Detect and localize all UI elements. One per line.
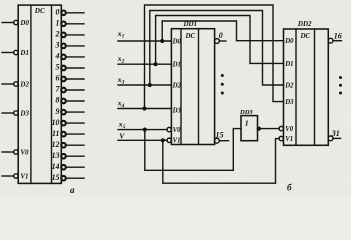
svg-text:D3: D3 [284, 99, 294, 106]
svg-text:0: 0 [56, 8, 60, 17]
DD1 pin V1 bubble [167, 138, 171, 142]
svg-text:V1: V1 [20, 173, 28, 181]
svg-text:D0: D0 [19, 19, 29, 27]
junction on V [161, 138, 165, 142]
svg-text:9: 9 [56, 107, 60, 116]
output 14 of DC (fig.a) [52, 162, 85, 171]
wire input x4 [118, 108, 171, 110]
output 13 of DC (fig.a) [52, 151, 85, 160]
svg-text:DC: DC [185, 32, 196, 40]
svg-text:V0: V0 [173, 127, 182, 134]
decoder DD2 body [284, 29, 329, 145]
ellipsis dots DD2 outputs [339, 76, 342, 95]
wire input x5 [118, 129, 167, 131]
svg-text:12: 12 [52, 140, 60, 149]
junction at DD3 output [257, 127, 261, 131]
svg-text:б: б [287, 183, 292, 193]
output 10 of DC (fig.a) [52, 118, 85, 127]
input D1 (fig.a) [2, 50, 18, 54]
DD2 pin V1 bubble [279, 136, 283, 140]
output 5 of DC (fig.a) [56, 63, 85, 72]
DD1 output 15 [215, 138, 229, 143]
DD2 pin V0 bubble [279, 126, 283, 130]
svg-text:D1: D1 [19, 49, 29, 57]
svg-text:D2: D2 [284, 82, 294, 89]
wire input x2 [118, 63, 171, 65]
DC left field divider [30, 5, 32, 183]
svg-text:10: 10 [52, 118, 60, 127]
svg-text:D1: D1 [172, 62, 181, 69]
output 1 of DC (fig.a) [56, 19, 85, 28]
svg-text:0: 0 [219, 31, 223, 40]
decoder DC body (fig.a) [18, 5, 61, 183]
DC right field divider [51, 5, 53, 183]
svg-text:a: a [70, 185, 75, 195]
svg-text:8: 8 [56, 96, 60, 105]
svg-text:V0: V0 [285, 126, 294, 133]
svg-text:15: 15 [216, 130, 224, 139]
DD1 output 0 [215, 39, 226, 44]
input D3 (fig.a) [2, 111, 18, 115]
output 2 of DC (fig.a) [55, 30, 85, 39]
svg-text:DC: DC [34, 7, 45, 15]
svg-text:D3: D3 [19, 110, 29, 118]
DD2 left field divider [295, 29, 297, 145]
wire input x3 [118, 84, 171, 86]
svg-text:31: 31 [331, 129, 340, 138]
svg-text:D3: D3 [172, 107, 182, 114]
svg-text:D2: D2 [19, 81, 29, 89]
DD2 output 16 [328, 38, 341, 43]
output 15 of DC (fig.a) [52, 173, 85, 182]
wire x3 to DD2.D2 [150, 11, 284, 86]
output 8 of DC (fig.a) [56, 96, 85, 105]
wire V to DD2.V1 [163, 139, 279, 184]
wire x1 to DD2.D0 [162, 21, 283, 41]
DD1 pin V0 bubble [167, 127, 171, 131]
input D0 (fig.a) [2, 20, 18, 24]
svg-text:16: 16 [334, 31, 342, 40]
wire x5 to DD3 input [145, 129, 241, 171]
wire x4 to DD2.D3 [145, 5, 284, 109]
wire x2 to DD2.D1 [156, 16, 284, 65]
svg-text:D0: D0 [284, 38, 294, 45]
inverter DD3 body [241, 116, 258, 141]
output 6 of DC (fig.a) [56, 74, 85, 83]
input V1 (fig.a) [2, 174, 18, 178]
svg-text:11: 11 [52, 129, 60, 138]
junction on x3 [148, 83, 152, 87]
svg-text:V0: V0 [20, 149, 29, 157]
wire input V [118, 139, 167, 141]
junction on x4 [142, 106, 146, 110]
output 7 of DC (fig.a) [56, 85, 85, 94]
junction on x2 [154, 62, 158, 66]
svg-text:5: 5 [56, 63, 60, 72]
svg-text:3: 3 [55, 41, 60, 50]
svg-text:DD3: DD3 [239, 109, 253, 116]
junction on x5 [143, 128, 147, 132]
output 3 of DC (fig.a) [55, 41, 85, 50]
svg-text:V1: V1 [285, 136, 293, 143]
svg-text:DC: DC [300, 32, 311, 40]
svg-text:D2: D2 [172, 82, 182, 89]
output 11 of DC (fig.a) [52, 129, 85, 138]
wire input x1 [118, 40, 171, 42]
input D2 (fig.a) [2, 82, 18, 86]
junction on x1 [160, 39, 164, 43]
DD2 right field divider [314, 29, 316, 145]
svg-text:2: 2 [55, 30, 60, 39]
output 4 of DC (fig.a) [55, 52, 85, 61]
svg-text:D0: D0 [172, 38, 182, 45]
svg-text:DD2: DD2 [297, 20, 312, 28]
output 0 of DC (fig.a) [56, 8, 85, 17]
decoder DD1 body [171, 29, 214, 145]
wire DD3 output to DD2.V0 [258, 128, 280, 130]
svg-text:1: 1 [56, 19, 60, 28]
DD1 right field divider [198, 29, 200, 145]
output 12 of DC (fig.a) [52, 140, 85, 149]
svg-text:DD1: DD1 [183, 20, 198, 28]
DD1 left field divider [180, 29, 182, 145]
svg-text:4: 4 [55, 52, 60, 61]
svg-text:D1: D1 [284, 61, 293, 68]
svg-text:13: 13 [52, 151, 60, 160]
DD2 output 31 [328, 136, 340, 141]
output 9 of DC (fig.a) [56, 107, 85, 116]
input V0 (fig.a) [2, 150, 18, 154]
ellipsis dots DD1 outputs [221, 74, 224, 95]
svg-text:V1: V1 [173, 138, 181, 145]
svg-text:6: 6 [56, 74, 60, 83]
svg-text:1: 1 [245, 119, 249, 128]
svg-text:14: 14 [52, 162, 60, 171]
svg-text:15: 15 [52, 173, 60, 182]
